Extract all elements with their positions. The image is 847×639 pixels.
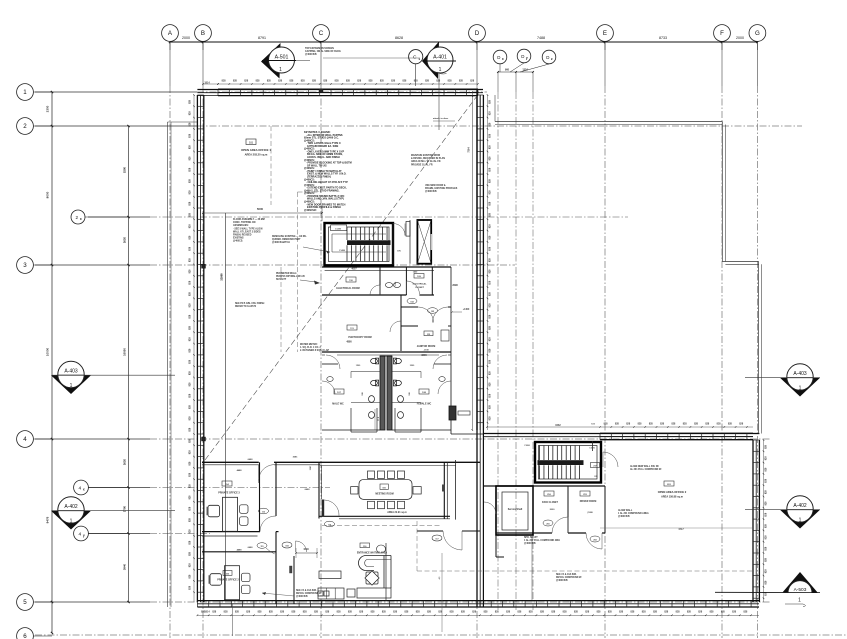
svg-text:3200: 3200 [421,354,427,357]
svg-text:C: C [413,55,417,61]
svg-text:WALL AT LEAST 2 SIDES: WALL AT LEAST 2 SIDES [233,230,261,233]
svg-text:OPEN AREA OFFICE 2: OPEN AREA OFFICE 2 [658,490,687,494]
svg-text:C1580: C1580 [589,447,595,449]
svg-text:6: 6 [23,633,27,639]
svg-text:1234: 1234 [522,69,528,72]
svg-text:21000: 21000 [220,273,224,281]
svg-text:x: x [80,217,82,221]
svg-text:9476: 9476 [46,516,50,523]
svg-text:attach. to door: attach. to door [433,117,448,120]
svg-text:SEE P2 B GBL CBL FINISH: SEE P2 B GBL CBL FINISH [235,303,265,305]
svg-text:CONC. TOPPING ON: CONC. TOPPING ON [233,222,256,224]
svg-text:DEMOLISH EXISTING — AS RE-: DEMOLISH EXISTING — AS RE- [272,235,307,238]
svg-text:AREA 22.91 sq.m: AREA 22.91 sq.m [387,511,407,514]
svg-text:PERIMETER WALL:: PERIMETER WALL: [276,272,298,275]
svg-text:6488: 6488 [248,546,254,549]
svg-text:C1280: C1280 [335,229,342,231]
svg-text:8628: 8628 [395,36,403,40]
svg-text:3300: 3300 [46,105,50,112]
svg-text:(1888: (1888 [587,512,593,514]
svg-text:1 AL 201 FULL COMPOUND 2WH: 1 AL 201 FULL COMPOUND 2WH [524,539,560,542]
svg-text:3081: 3081 [293,457,299,459]
svg-text:@406CS/B: @406CS/B [618,515,630,518]
svg-text:D: D [546,55,549,60]
svg-text:CAPPING, ON AL SIDE OF BLDG: CAPPING, ON AL SIDE OF BLDG [305,50,341,53]
svg-text:AL 201 FULL COMPOUND 2F: AL 201 FULL COMPOUND 2F [630,468,662,471]
svg-text:2000: 2000 [550,509,556,511]
svg-text:1: 1 [799,518,802,524]
svg-text:FLOOR ASSEMBLY — 38 MM: FLOOR ASSEMBLY — 38 MM [233,218,265,221]
svg-text:105: 105 [431,311,434,313]
svg-text:E: E [603,30,607,37]
svg-text:4488: 4488 [237,469,243,472]
svg-text:USE NEW DOOR &: USE NEW DOOR & [425,185,446,187]
svg-text:6488: 6488 [305,488,311,491]
svg-text:D: D [521,54,524,59]
svg-text:DATA CLOSET: DATA CLOSET [542,501,559,504]
svg-text:PER P16 DRYWALL W/ AB: PER P16 DRYWALL W/ AB [276,275,305,278]
svg-text:WATER METER:: WATER METER: [300,343,318,346]
svg-text:A-401: A-401 [433,55,447,61]
svg-text:@406CS/B: @406CS/B [296,595,308,598]
svg-text:8000: 8000 [46,191,50,198]
svg-text:8482: 8482 [555,424,561,427]
svg-text:DRIVER ROOM: DRIVER ROOM [580,501,597,503]
svg-text:2000: 2000 [182,36,190,40]
svg-text:1814: 1814 [204,611,210,614]
svg-text:D: D [497,55,500,60]
svg-text:@406CS/B: @406CS/B [556,579,568,582]
svg-text:115: 115 [260,546,263,548]
svg-text:ELECTRICAL ROOM: ELECTRICAL ROOM [336,287,359,290]
svg-text:MEETING ROOM: MEETING ROOM [375,494,393,496]
svg-text:8733: 8733 [659,36,667,40]
svg-text:AREA IN SILL W. GL/AL FR.: AREA IN SILL W. GL/AL FR. [411,160,441,163]
svg-text:QUIRED. REMOVED PART: QUIRED. REMOVED PART [272,238,301,241]
svg-text:1: 1 [279,67,282,73]
svg-text:@406CS/HATCH: @406CS/HATCH [272,241,290,244]
svg-text:PROVIDE GL/AL FR: PROVIDE GL/AL FR [411,163,433,166]
svg-text:AREA 158.88 sq.m: AREA 158.88 sq.m [661,496,684,499]
svg-text:8791: 8791 [258,36,266,40]
svg-text:4488: 4488 [237,549,243,552]
svg-text:REFER TO 8-A4570: REFER TO 8-A4570 [235,305,257,308]
svg-text:MALE WC: MALE WC [332,403,344,406]
svg-text:3: 3 [23,262,27,269]
svg-text:D: D [475,30,480,37]
svg-text:@406CS/B: @406CS/B [425,190,437,193]
svg-text:@406CS/B: @406CS/B [305,53,317,56]
svg-text:OPEN AREA OFFICE 1: OPEN AREA OFFICE 1 [241,148,271,152]
svg-text:SEE 7A & 10A SIM.: SEE 7A & 10A SIM. [556,573,577,576]
svg-text:AREA 203.20 sq.m: AREA 203.20 sq.m [245,153,268,157]
svg-text:5280: 5280 [123,166,127,173]
svg-text:2620: 2620 [123,458,127,465]
svg-text:4880: 4880 [346,341,352,344]
svg-text:1: 1 [23,89,27,96]
svg-text:y: y [526,56,528,60]
svg-text:& REVISE, REQUIRED IN PLAN: & REVISE, REQUIRED IN PLAN [411,157,445,160]
svg-text:C1480: C1480 [339,249,346,252]
svg-text:1. SQ. FLR. 1 CO. 2: 1. SQ. FLR. 1 CO. 2 [300,347,322,349]
svg-text:A-403: A-403 [793,371,807,377]
svg-text:7488: 7488 [537,36,545,40]
svg-text:FINISH. REUSED: FINISH. REUSED [233,235,252,237]
svg-text:PRIVATE OFFICE 2: PRIVATE OFFICE 2 [217,579,239,582]
svg-text:JANITOR ROOM: JANITOR ROOM [417,345,436,348]
svg-text:@406CS/B: @406CS/B [524,542,536,545]
svg-text:PHOTOCOPY ROOM: PHOTOCOPY ROOM [348,336,371,339]
svg-text:x: x [502,57,504,61]
svg-text:5600: 5600 [257,207,264,211]
svg-text:2780: 2780 [123,505,127,512]
svg-text:ENTRANCE WAITING AREA: ENTRANCE WAITING AREA [357,552,388,555]
svg-text:4717: 4717 [678,528,684,531]
svg-text:PRIVATE OFFICE 3: PRIVATE OFFICE 3 [218,492,240,495]
svg-text:10000: 10000 [46,347,50,356]
svg-text:C: C [319,30,324,37]
svg-text:DN: DN [397,251,401,253]
svg-text:@406CS:: @406CS: [233,240,243,243]
svg-text:2. RETAINED 8 SQ5. 8 LAP: 2. RETAINED 8 SQ5. 8 LAP [300,349,330,352]
svg-text:C1080: C1080 [524,445,530,447]
svg-text:FRAME, EXISTING PROFILES: FRAME, EXISTING PROFILES [425,187,458,190]
svg-text:A-402: A-402 [64,504,78,510]
svg-text:+1400: +1400 [463,308,470,311]
svg-text:DETAIL COMPOUND 2F: DETAIL COMPOUND 2F [556,576,582,579]
svg-text:A-501: A-501 [275,55,289,61]
svg-text:EXISTING: EXISTING [233,238,244,240]
svg-text:B: B [201,30,205,37]
svg-text:113: 113 [262,511,265,513]
svg-text:ALIGN WALL: ALIGN WALL [618,509,633,512]
svg-text:SPD. SHAFT: SPD. SHAFT [524,536,538,539]
svg-text:-2188: -2188 [423,350,429,352]
svg-text:1: 1 [798,598,801,604]
svg-text:4007: 4007 [351,268,357,271]
svg-text:1: 1 [70,383,73,389]
svg-text:F: F [720,30,724,37]
svg-text:4: 4 [78,531,81,537]
svg-text:5: 5 [23,599,27,606]
svg-text:6488: 6488 [248,458,254,461]
svg-text:A-503: A-503 [794,587,807,593]
svg-text:ALIGN NEW WALL FIN. W/: ALIGN NEW WALL FIN. W/ [630,465,659,468]
svg-text:Service Shaft: Service Shaft [508,508,523,511]
svg-text:1 AL 201 COMPOUND AREA: 1 AL 201 COMPOUND AREA [618,512,649,515]
svg-text:1: 1 [799,386,802,392]
svg-text:4: 4 [23,436,27,443]
svg-text:2: 2 [76,215,79,220]
svg-text:7364: 7364 [468,147,471,153]
svg-text:2: 2 [23,123,27,130]
svg-text:SUS GYP: SUS GYP [276,279,287,281]
svg-text:10000: 10000 [123,348,127,356]
svg-text:2620: 2620 [123,236,127,243]
svg-text:900: 900 [505,69,510,72]
svg-text:MAINTAIN EXISTING WDW: MAINTAIN EXISTING WDW [411,154,441,157]
svg-text:4: 4 [78,485,81,491]
svg-text:3940: 3940 [123,563,127,570]
svg-text:SEE 7A & 10A SIM.: SEE 7A & 10A SIM. [296,589,317,592]
svg-text:A-403: A-403 [64,369,78,375]
svg-text:ELECTRICAL: ELECTRICAL [413,283,428,286]
svg-text:CLOSET: CLOSET [415,287,425,289]
svg-text:1: 1 [70,519,73,525]
svg-text:@406CS/2:: @406CS/2: [304,209,317,212]
svg-text:x: x [83,488,85,492]
svg-text:A-402: A-402 [793,503,807,509]
svg-text:y: y [83,534,85,538]
svg-text:ASSEMBLIES:: ASSEMBLIES: [233,224,249,227]
svg-text:- SEE 5 WALL TYPE ALIGN: - SEE 5 WALL TYPE ALIGN [233,227,263,230]
svg-text:TOP EXPANSION SCREEN: TOP EXPANSION SCREEN [305,47,334,50]
svg-text:2000: 2000 [736,36,744,40]
svg-text:FEMALE WC: FEMALE WC [417,403,432,406]
svg-text:G: G [755,30,760,37]
svg-text:2698: 2698 [452,284,458,287]
